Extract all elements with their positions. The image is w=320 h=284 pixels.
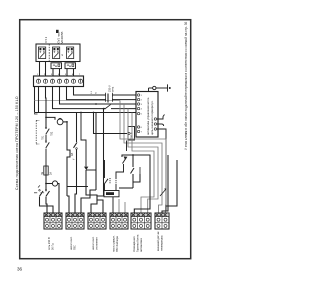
svg-text:ГВС бойлера: ГВС бойлера xyxy=(115,236,119,252)
black routed wire to B5 xyxy=(122,155,150,213)
lamp circle xyxy=(52,181,57,186)
svg-text:50 Гц: 50 Гц xyxy=(51,243,55,250)
terminal block 5 xyxy=(131,213,151,229)
left bus wire from strip xyxy=(34,87,36,113)
svg-text:36: 36 xyxy=(17,267,23,272)
svg-text:сеть 230 В: сеть 230 В xyxy=(47,237,51,250)
left dashed link bracket xyxy=(35,112,40,144)
svg-text:Горелка Котла: Горелка Котла xyxy=(136,234,140,252)
wire to block B2 pin1 xyxy=(67,196,69,213)
controller pins right xyxy=(154,118,156,130)
relay unit 1 xyxy=(39,47,46,59)
230V small box xyxy=(128,127,135,141)
relay K1 coil xyxy=(104,184,119,213)
svg-text:Схема подключения котла ПРОТЕР: Схема подключения котла ПРОТЕРМ 120 – 15… xyxy=(15,96,19,190)
wire strip pin6 to plug N xyxy=(67,87,107,100)
svg-text:внешний датчик: внешний датчик xyxy=(156,231,160,251)
svg-text:температуры: температуры xyxy=(161,235,164,251)
middle vertical with jog switch xyxy=(67,122,70,196)
controller box xyxy=(136,92,158,138)
svg-text:У этих клемм в обе линии подкл: У этих клемм в обе линии подключайте пер… xyxy=(184,22,188,150)
svg-text:автоматика: автоматика xyxy=(140,238,143,252)
wires relay box to terminal strip xyxy=(40,62,74,77)
plug symbol xyxy=(106,93,113,103)
wire from 230V box down xyxy=(126,141,128,152)
fuse xyxy=(44,166,48,175)
gas valve arrow xyxy=(116,157,127,178)
relay K1 contact xyxy=(104,160,108,184)
switch contact S1 xyxy=(45,127,49,141)
wire to 230V box pin xyxy=(94,113,128,134)
wire strip pin1 down xyxy=(38,87,40,113)
gray routed wire A xyxy=(119,101,166,214)
wire thermostat to block B2 pin2 xyxy=(75,152,77,213)
svg-text:VK4005B: VK4005B xyxy=(60,32,64,44)
svg-text:ГВС: ГВС xyxy=(73,245,77,250)
boiler terminal strip xyxy=(34,76,84,87)
pump symbol xyxy=(57,118,63,124)
relay contact right xyxy=(119,154,140,188)
svg-text:АВ: АВ xyxy=(71,152,74,156)
lamp to block B1 xyxy=(58,184,59,214)
diode arrow mid xyxy=(86,169,96,171)
switch contact S2 xyxy=(45,141,49,166)
contact blade on wire xyxy=(104,108,111,110)
wire strip pin5 to box xyxy=(60,87,137,105)
terminal block 6 xyxy=(155,213,169,229)
wire strip pin4 to box xyxy=(53,87,137,109)
terminal block 3 xyxy=(88,213,106,229)
terminal block 4 xyxy=(110,213,128,229)
controller pins left xyxy=(137,94,139,133)
right pin hooks xyxy=(157,115,166,212)
junction dot xyxy=(45,183,47,185)
gray routed wire D xyxy=(132,113,154,214)
wire to block B2 pin3 xyxy=(81,190,96,213)
wire strip pin7 to plug L xyxy=(74,87,107,96)
svg-text:2А: 2А xyxy=(50,172,53,175)
svg-text:t°: t° xyxy=(73,158,76,160)
border frame xyxy=(20,20,191,259)
sensor symbol xyxy=(149,84,171,91)
svg-text:отопления: отопления xyxy=(96,237,99,250)
gray drop E xyxy=(118,199,120,213)
svg-text:автоматика управления котла: автоматика управления котла xyxy=(147,97,150,135)
strip screws xyxy=(36,79,82,83)
junction dots pump line xyxy=(45,117,47,119)
bus line to controller pin5 xyxy=(35,112,136,114)
svg-text:сеть: сеть xyxy=(112,86,115,92)
terminal block 1 xyxy=(44,213,62,229)
terminal block 2 xyxy=(66,213,84,229)
feed wire pin2 to contacts xyxy=(45,87,48,128)
label GV1 VK4005 above box xyxy=(56,30,64,44)
block labels xyxy=(47,231,164,252)
svg-text:цепь внешнего терморегул.: цепь внешнего терморегул. xyxy=(151,100,154,135)
gray feed wire xyxy=(35,100,121,102)
main double switch dashed xyxy=(34,184,53,214)
svg-text:ГВ1: ГВ1 xyxy=(42,135,45,140)
relay unit 2 xyxy=(53,47,60,59)
thermostat contact xyxy=(74,113,78,153)
svg-text:Освещённая: Освещённая xyxy=(132,236,136,252)
right black drops xyxy=(160,155,177,213)
mid long verticals xyxy=(95,113,97,191)
relay module box GV1 xyxy=(36,44,80,62)
dotted mechanical links xyxy=(110,178,116,184)
wire to block B3 pin1 xyxy=(91,196,104,213)
dashed separator in relay box xyxy=(48,44,50,62)
connector block B under relay 3 xyxy=(65,63,76,69)
wire to block B3 pin3 xyxy=(86,170,103,213)
relay unit 3 xyxy=(67,47,74,59)
gray routed wire C xyxy=(128,109,158,213)
svg-text:6 5 2: 6 5 2 xyxy=(44,36,48,42)
gray routed wire B xyxy=(124,104,162,213)
strip pin digits xyxy=(37,74,81,76)
connector block A under relay 2 xyxy=(51,63,62,69)
svg-text:ГВ2: ГВ2 xyxy=(51,131,54,136)
